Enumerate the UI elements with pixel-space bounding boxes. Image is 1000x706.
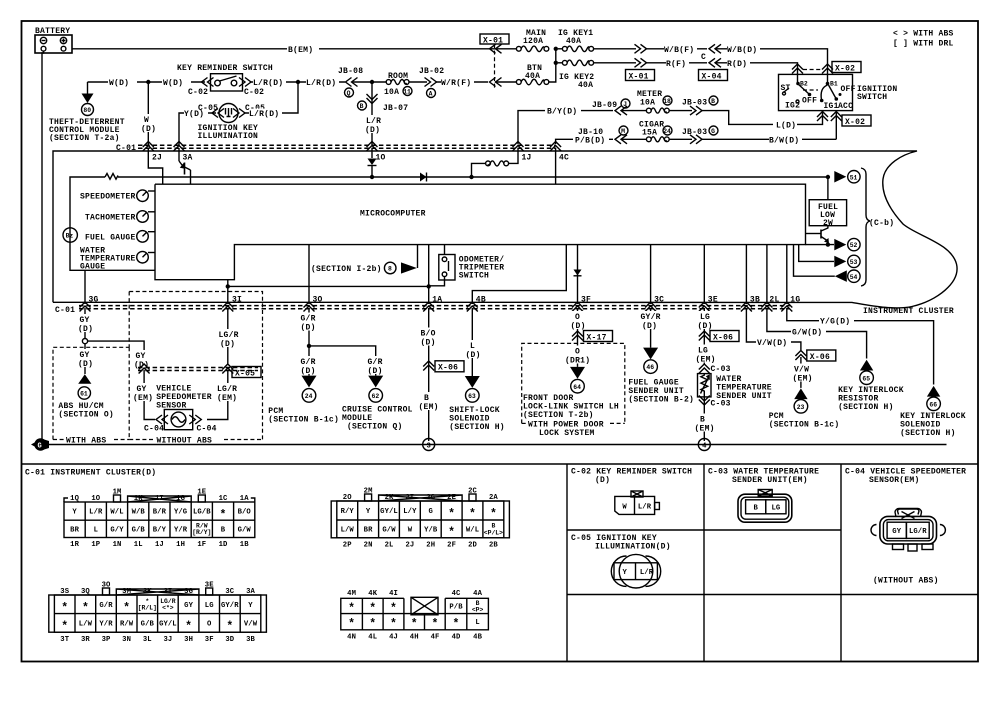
svg-text:3G: 3G (89, 296, 99, 305)
fuse ROOM 10A (384, 72, 412, 97)
svg-text:64: 64 (573, 384, 581, 391)
svg-text:52: 52 (850, 242, 858, 249)
fuse IG KEY2 40A (558, 60, 636, 90)
svg-text:L/R: L/R (89, 509, 103, 517)
svg-text:4C: 4C (452, 590, 461, 598)
wire W/B(D) (716, 44, 828, 64)
svg-text:(SECTION B-2): (SECTION B-2) (628, 396, 694, 405)
svg-text:1A: 1A (240, 495, 249, 503)
svg-text:3: 3 (427, 442, 431, 450)
svg-text:W/B: W/B (132, 509, 146, 517)
svg-text:W: W (622, 503, 627, 511)
svg-text:3L: 3L (143, 636, 152, 644)
svg-text:11: 11 (403, 89, 411, 96)
svg-text:L/R(D): L/R(D) (249, 110, 279, 119)
svg-text:1L: 1L (134, 541, 143, 549)
svg-text:3A: 3A (183, 154, 193, 163)
wire W(D) to key reminder switch (88, 78, 206, 88)
ignition key illumination (179, 104, 265, 147)
gauge water temperature (80, 247, 155, 272)
table column divider 3 (840, 464, 842, 662)
svg-text:3E: 3E (708, 296, 718, 305)
table row divider lower (567, 594, 978, 596)
wire B/W(D) to ignition ACC (702, 111, 837, 146)
svg-text:KEY REMINDER SWITCH: KEY REMINDER SWITCH (177, 64, 273, 73)
svg-text:L/W: L/W (79, 621, 93, 629)
svg-text:W/R(F): W/R(F) (441, 79, 471, 88)
svg-text:Bz: Bz (66, 233, 74, 240)
wire GY/R(D) from 3C (639, 308, 663, 348)
svg-text:L/Y: L/Y (403, 508, 417, 516)
svg-text:ROOM: ROOM (388, 72, 408, 81)
svg-text:L: L (470, 342, 475, 351)
svg-text:GY: GY (80, 351, 90, 360)
wire LG/R(D) from 3I (217, 308, 240, 364)
svg-text:3O: 3O (102, 582, 111, 590)
svg-text:(SECTION T-2a): (SECTION T-2a) (49, 134, 120, 143)
connector X-05 (138, 364, 261, 378)
svg-text:JB-10: JB-10 (578, 128, 603, 137)
svg-text:1C: 1C (219, 495, 228, 503)
svg-text:62: 62 (372, 393, 380, 400)
wire L/R (D) down to pin 1O (365, 82, 381, 145)
wire 2J inside cluster (148, 148, 162, 184)
svg-text:1O: 1O (376, 154, 386, 163)
svg-text:(D): (D) (698, 322, 713, 331)
svg-text:2K: 2K (385, 494, 394, 502)
svg-text:1P: 1P (91, 541, 100, 549)
svg-text:B: B (711, 98, 715, 105)
connector X-17 (584, 331, 613, 343)
svg-text:B: B (753, 505, 758, 513)
svg-text:40A: 40A (566, 37, 581, 46)
brace (C-b) (861, 168, 894, 286)
svg-text:W: W (408, 527, 413, 535)
svg-text:WITHOUT ABS: WITHOUT ABS (157, 437, 213, 446)
connector JB-07 down (358, 94, 409, 113)
svg-text:(SECTION H): (SECTION H) (900, 429, 956, 438)
svg-text:G/R: G/R (301, 358, 316, 367)
svg-text:OFF: OFF (841, 85, 856, 94)
gauge fuel (85, 231, 155, 243)
svg-text:2F: 2F (447, 541, 456, 549)
svg-text:(EM): (EM) (217, 394, 237, 403)
wire 4C into microcomputer (555, 148, 557, 184)
svg-text:2M: 2M (364, 488, 373, 496)
svg-text:3N: 3N (122, 636, 131, 644)
connector JB-10 (578, 126, 628, 144)
svg-text:4B: 4B (473, 633, 482, 641)
svg-text:3B: 3B (246, 636, 255, 644)
svg-text:X-06: X-06 (810, 353, 830, 362)
svg-text:BR: BR (364, 527, 373, 535)
wire O(D) from 3F (564, 308, 594, 367)
svg-text:W: W (144, 116, 149, 125)
svg-text:1F: 1F (197, 541, 206, 549)
svg-text:ACC: ACC (838, 102, 853, 111)
svg-text:Y/R: Y/R (99, 621, 113, 629)
arrow 63 shift-lock (449, 376, 505, 432)
node Bz (63, 228, 77, 242)
wire L/R(D) illumination up to junction (244, 82, 298, 119)
svg-text:G/Y: G/Y (110, 527, 124, 535)
svg-text:C-04: C-04 (144, 425, 164, 434)
title C-03 (708, 468, 819, 486)
arrow 62 cruise control (342, 376, 413, 432)
connector drawing C-02 (615, 491, 660, 514)
svg-text:WITH ABS: WITH ABS (66, 437, 106, 446)
svg-text:[R/L]: [R/L] (138, 605, 157, 612)
svg-text:2J: 2J (152, 154, 162, 163)
odometer/tripmeter switch (429, 245, 504, 286)
svg-text:40A: 40A (525, 72, 540, 81)
svg-text:LG/B: LG/B (193, 509, 211, 517)
arrow 54 (794, 245, 861, 283)
svg-text:Y/G(D): Y/G(D) (820, 318, 850, 327)
pin 3C (645, 296, 664, 312)
svg-text:3T: 3T (60, 636, 69, 644)
svg-text:X-02: X-02 (845, 118, 865, 127)
svg-text:2N: 2N (364, 541, 373, 549)
wire Y/G(D) from 1G (787, 308, 934, 385)
svg-text:Y: Y (366, 508, 371, 516)
svg-text:X-17: X-17 (587, 333, 607, 342)
wire W/R(F) (436, 78, 488, 88)
inline diode on rail (420, 173, 427, 182)
svg-text:3E: 3E (205, 582, 214, 590)
svg-text:G/W: G/W (238, 527, 252, 535)
svg-text:V/W: V/W (794, 366, 809, 375)
svg-text:W/L: W/L (110, 509, 123, 517)
svg-text:3D: 3D (225, 636, 234, 644)
svg-text:4K: 4K (368, 590, 377, 598)
svg-text:GY: GY (892, 528, 901, 536)
svg-text:1N: 1N (113, 541, 122, 549)
svg-text:L/R(D): L/R(D) (253, 79, 283, 88)
svg-text:LG/R: LG/R (909, 528, 927, 536)
svg-text:(D): (D) (368, 367, 383, 376)
pin 1O (367, 142, 386, 163)
connector JB-03 meter (669, 96, 718, 115)
arrow 46 fuel gauge sender (628, 348, 694, 405)
svg-text:*: * (185, 621, 192, 634)
svg-text:LG: LG (771, 505, 780, 513)
svg-text:B/O: B/O (238, 509, 252, 517)
svg-text:120A: 120A (523, 37, 543, 46)
svg-text:(D): (D) (595, 476, 610, 485)
svg-text:(D): (D) (365, 126, 380, 135)
svg-text:A: A (429, 91, 433, 98)
table divider top (22, 463, 979, 465)
svg-text:1A: 1A (432, 296, 442, 305)
section I-2b arrow (311, 245, 418, 274)
instrument cluster outline (53, 151, 957, 316)
svg-text:G/R: G/R (368, 358, 383, 367)
svg-text:1H: 1H (176, 541, 185, 549)
svg-text:4D: 4D (452, 633, 461, 641)
svg-text:3P: 3P (102, 636, 111, 644)
svg-text:(SECTION T-2b): (SECTION T-2b) (523, 411, 594, 420)
svg-text:R/Y: R/Y (341, 508, 355, 516)
dashed box front door power lock (522, 343, 625, 438)
svg-text:SENDER UNIT(EM): SENDER UNIT(EM) (732, 476, 808, 485)
wire R(F) (646, 58, 707, 68)
svg-text:C-03: C-03 (711, 400, 731, 409)
gauge speedometer (80, 190, 155, 202)
dashed box WITH ABS (53, 347, 129, 445)
svg-text:*: * (490, 508, 497, 521)
svg-text:B/Y(D): B/Y(D) (547, 108, 577, 117)
svg-text:M: M (621, 128, 625, 135)
svg-text:SPEEDOMETER: SPEEDOMETER (80, 193, 136, 202)
svg-text:GY/R: GY/R (641, 313, 661, 322)
svg-text:B/O: B/O (421, 330, 436, 339)
fuse 1J inside cluster (472, 148, 519, 177)
svg-text:GY: GY (136, 352, 146, 361)
microcomputer box (155, 184, 806, 280)
svg-text:O: O (575, 313, 580, 322)
connector JB-03 cigar (669, 126, 718, 144)
svg-text:<*>: <*> (162, 605, 174, 612)
svg-text:C-02 KEY REMINDER SWITCH: C-02 KEY REMINDER SWITCH (571, 468, 692, 477)
svg-text:2J: 2J (405, 541, 414, 549)
pin 1J (513, 142, 532, 163)
svg-text:*: * (369, 618, 376, 631)
svg-text:54: 54 (850, 274, 858, 281)
arrow 64 front door (523, 367, 619, 420)
wire L/R(D) from switch to junction (250, 78, 345, 88)
wire 1G drop (786, 245, 788, 304)
wire V/W(D) from 3B (746, 308, 801, 350)
svg-text:W/B(D): W/B(D) (727, 46, 757, 55)
ground G (31, 438, 49, 450)
pin 2L (761, 296, 779, 312)
svg-text:ILLUMINATION(D): ILLUMINATION(D) (595, 543, 671, 552)
X-01 label box (480, 34, 509, 88)
svg-text:51: 51 (850, 174, 858, 181)
svg-text:Y: Y (622, 569, 627, 577)
svg-text:C-03: C-03 (711, 365, 731, 374)
svg-text:3R: 3R (81, 636, 90, 644)
battery (35, 27, 72, 53)
svg-text:BR: BR (70, 527, 79, 535)
pin 3G (80, 296, 99, 312)
wire to room fuse (352, 80, 386, 84)
svg-text:(D): (D) (134, 361, 149, 370)
svg-text:P/B(D): P/B(D) (575, 136, 605, 145)
svg-text:1O: 1O (91, 495, 100, 503)
wire GY(EM) to sensor (133, 370, 156, 420)
wire battery negative to ground (42, 51, 44, 440)
svg-text:4B: 4B (476, 296, 486, 305)
svg-text:[R/Y]: [R/Y] (192, 529, 211, 536)
svg-text:LG: LG (700, 313, 710, 322)
svg-text:GY/R: GY/R (221, 602, 239, 610)
connector JB-09 (592, 99, 630, 115)
svg-text:(D): (D) (466, 351, 481, 360)
bus C-01 bottom (55, 306, 790, 315)
svg-text:GAUGE: GAUGE (80, 263, 105, 272)
title C-01 (25, 469, 156, 478)
connector X-01 pair (626, 44, 655, 81)
svg-text:3C: 3C (654, 296, 664, 305)
svg-text:B: B (424, 394, 429, 403)
svg-text:B1: B1 (830, 81, 838, 88)
svg-text:(D): (D) (141, 125, 156, 134)
node 4 (698, 439, 710, 451)
svg-text:*: * (348, 603, 355, 616)
svg-text:61: 61 (80, 391, 88, 398)
svg-text:LOCK SYSTEM: LOCK SYSTEM (539, 429, 595, 438)
svg-text:Q: Q (347, 90, 351, 97)
wire G/R(D) from 3O (298, 308, 321, 376)
svg-text:W(D): W(D) (163, 79, 183, 88)
svg-text:C-01 INSTRUMENT CLUSTER(D): C-01 INSTRUMENT CLUSTER(D) (25, 469, 156, 478)
svg-text:(SECTION B-1c): (SECTION B-1c) (268, 416, 339, 425)
svg-text:3F: 3F (581, 296, 591, 305)
svg-text:Y: Y (72, 509, 77, 517)
svg-text:4J: 4J (389, 633, 398, 641)
svg-text:(EM): (EM) (695, 425, 715, 434)
fuse IG KEY1 40A (558, 29, 636, 52)
svg-text:1K: 1K (134, 495, 143, 503)
svg-text:(D): (D) (642, 322, 657, 331)
svg-text:2E: 2E (447, 494, 456, 502)
svg-text:4: 4 (702, 442, 707, 450)
arrow 23 PCM right (769, 388, 840, 429)
svg-text:FUEL GAUGE: FUEL GAUGE (85, 233, 136, 242)
svg-text:X-06: X-06 (713, 333, 733, 342)
svg-text:(SECTION Q): (SECTION Q) (347, 423, 403, 432)
svg-text:3B: 3B (750, 296, 760, 305)
svg-text:G/W(D): G/W(D) (792, 329, 822, 338)
connector drawing C-04 (871, 508, 945, 585)
diode on pin 1O branch (368, 148, 377, 177)
svg-text:(DR1): (DR1) (565, 357, 590, 366)
svg-text:53: 53 (850, 259, 858, 266)
svg-text:*: * (453, 618, 460, 631)
svg-text:(D): (D) (78, 360, 93, 369)
wire W/B(F) (646, 44, 707, 54)
svg-text:4L: 4L (368, 633, 377, 641)
svg-text:1J: 1J (522, 154, 532, 163)
svg-text:G/B: G/B (141, 621, 155, 629)
svg-text:2H: 2H (426, 541, 435, 549)
arrow 52 (806, 238, 861, 250)
svg-text:X-06: X-06 (438, 364, 458, 373)
gauges box (70, 174, 155, 271)
svg-text:*: * (390, 618, 397, 631)
svg-text:1G: 1G (176, 495, 185, 503)
svg-text:10A: 10A (384, 88, 399, 97)
svg-text:*: * (61, 602, 68, 615)
svg-text:3F: 3F (205, 636, 214, 644)
svg-text:(EM): (EM) (419, 403, 439, 412)
svg-text:GY: GY (184, 602, 193, 610)
ground rail wire (46, 444, 947, 446)
svg-text:Y/R: Y/R (174, 527, 188, 535)
wire LG(D) from 3E (695, 308, 718, 365)
svg-text:(D): (D) (421, 339, 436, 348)
svg-text:18: 18 (663, 98, 671, 105)
svg-text:10A: 10A (640, 99, 655, 108)
connector C-03 bottom (694, 396, 731, 442)
pin 3E (699, 296, 718, 312)
svg-text:L: L (475, 619, 479, 627)
svg-text:ILLUMINATION: ILLUMINATION (198, 132, 259, 141)
arrow 65 key interlock resistor (838, 360, 904, 412)
connector X-02 bottom (817, 112, 871, 127)
pin 2J (143, 142, 162, 163)
pin 1A (423, 296, 442, 312)
svg-text:O: O (207, 621, 212, 629)
svg-text:<P>: <P> (472, 606, 484, 613)
svg-text:GY: GY (80, 316, 90, 325)
svg-text:2O: 2O (343, 494, 352, 502)
connector X-02 top (792, 62, 861, 84)
wire LG/R(EM) to sensor (207, 370, 241, 420)
svg-text:2L: 2L (769, 296, 779, 305)
svg-text:*: * (82, 602, 89, 615)
svg-text:G: G (711, 128, 715, 135)
svg-text:63: 63 (468, 393, 476, 400)
svg-text:Y/B: Y/B (424, 527, 438, 535)
wire 3B drop (745, 245, 747, 304)
svg-text:JB-08: JB-08 (338, 67, 363, 76)
svg-text:80: 80 (83, 107, 91, 114)
svg-text:*: * (448, 527, 455, 540)
svg-text:1J: 1J (155, 541, 164, 549)
pin 3I (222, 296, 242, 312)
theft-deterrent module branch (49, 82, 125, 143)
svg-text:1B: 1B (240, 541, 249, 549)
svg-text:J: J (623, 101, 627, 108)
svg-text:3M: 3M (122, 588, 131, 596)
svg-text:O: O (575, 348, 580, 357)
svg-text:(SECTION H): (SECTION H) (838, 403, 894, 412)
svg-text:C-02: C-02 (244, 88, 264, 97)
svg-text:V/W: V/W (244, 621, 258, 629)
svg-text:*: * (432, 618, 439, 631)
connector X-04 pair (699, 44, 728, 81)
connector C-03 top (699, 364, 731, 374)
wire 3I to 1A link (226, 284, 431, 288)
svg-text:G: G (428, 508, 432, 516)
wire 3O drop (308, 245, 310, 304)
pin 3A (174, 142, 193, 163)
connector X-01 on B(EM) (490, 44, 502, 53)
svg-text:B: B (360, 103, 364, 110)
fuse METER 10A (622, 90, 672, 113)
wire B(EM) (72, 44, 516, 55)
svg-text:B/R: B/R (153, 509, 167, 517)
svg-text:W(D): W(D) (109, 79, 129, 88)
title C-02 (571, 468, 692, 486)
connector drawing C-05 (611, 554, 660, 588)
lamp FUEL LOW 2W (809, 177, 846, 228)
connector grid C-01 block 4 (341, 590, 489, 641)
node 3 (423, 439, 435, 451)
svg-text:C: C (701, 53, 706, 62)
wire GY(D) down to ABS (78, 344, 95, 374)
svg-text:(EM): (EM) (696, 356, 716, 365)
svg-text:G/W: G/W (382, 527, 396, 535)
svg-text:LG: LG (698, 347, 708, 356)
arrow 66 key interlock solenoid (900, 386, 966, 438)
svg-text:3Q: 3Q (81, 588, 90, 596)
svg-text:2P: 2P (343, 541, 352, 549)
wire B/O(D) from 1A (418, 308, 442, 441)
